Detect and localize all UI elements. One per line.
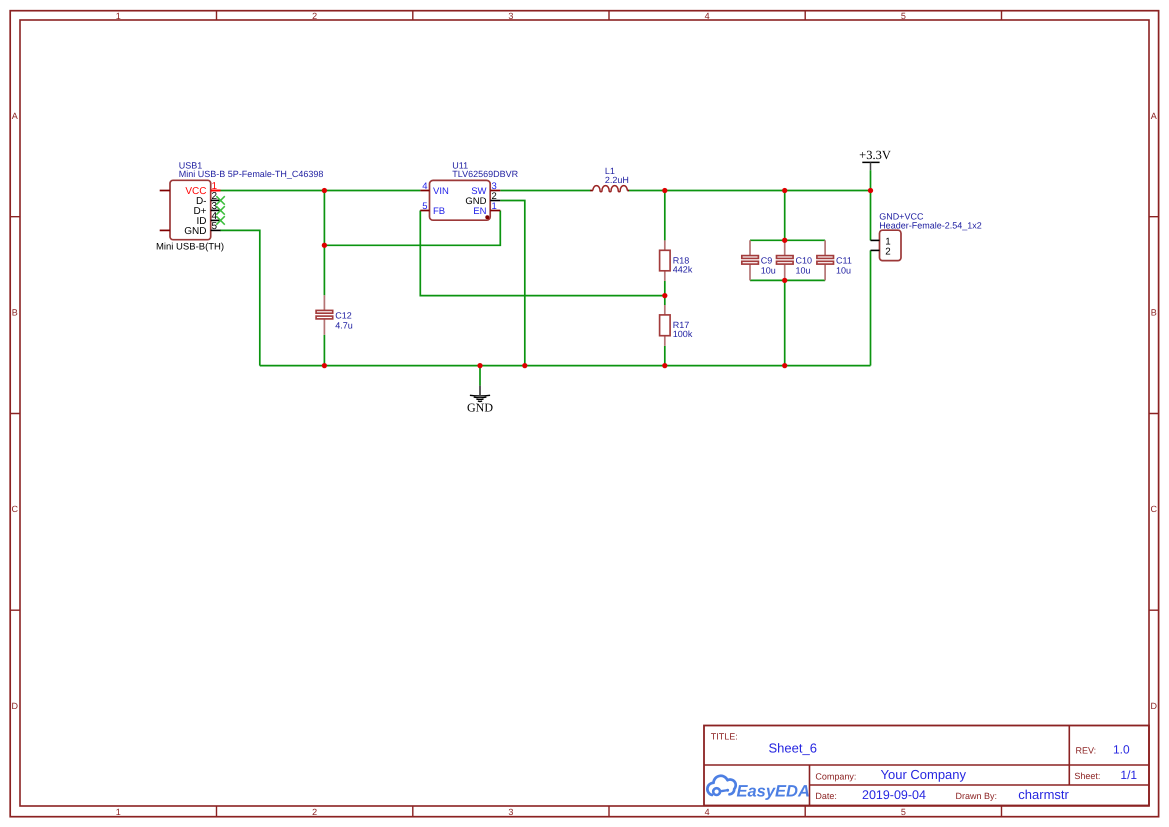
bottom column ticks: [217, 806, 1002, 817]
left row ticks: [10, 217, 21, 611]
svg-text:1.0: 1.0: [1113, 742, 1130, 756]
svg-text:3: 3: [508, 11, 513, 21]
svg-text:Sheet_6: Sheet_6: [769, 740, 817, 755]
R17 leads: [664, 305, 666, 315]
wire R18 to R17: [664, 281, 666, 305]
wire FB to divider tap: [420, 211, 665, 296]
header body: [880, 230, 902, 260]
wire rail to R18: [664, 191, 666, 241]
svg-text:EN: EN: [473, 206, 486, 217]
svg-text:C12: C12: [335, 311, 352, 321]
svg-text:5: 5: [901, 11, 906, 21]
svg-text:TITLE:: TITLE:: [711, 732, 738, 742]
svg-text:C11: C11: [836, 256, 852, 266]
L1 winding: [593, 186, 627, 192]
svg-text:EasyEDA: EasyEDA: [737, 782, 810, 800]
resistor R17: [660, 305, 693, 346]
wire U11 GND to ground rail: [500, 201, 525, 366]
resistor R18: [660, 240, 693, 281]
svg-text:2.2uH: 2.2uH: [605, 175, 629, 185]
svg-text:5: 5: [422, 201, 427, 212]
wire L1 to +3.3V rail: [629, 190, 871, 192]
junction GND flag: [477, 363, 482, 368]
junction C12/ground rail: [322, 363, 327, 368]
header pin 1: [871, 239, 880, 241]
left ruler letters: [11, 111, 18, 711]
svg-text:3: 3: [508, 807, 513, 817]
USB1 pin 1 VCC: [211, 190, 221, 192]
junction cap bank top: [782, 238, 787, 243]
svg-text:GND: GND: [467, 401, 493, 415]
svg-text:10u: 10u: [761, 266, 776, 276]
right row ticks: [1149, 217, 1159, 611]
inductor L1: [590, 166, 629, 192]
U11 pin 3 SW: [490, 190, 500, 192]
wire SW to L1: [500, 190, 590, 192]
capacitor C12: [316, 295, 353, 335]
svg-text:1: 1: [492, 201, 497, 212]
top column ticks: [217, 10, 1002, 20]
svg-text:1: 1: [116, 11, 121, 21]
wire EN to VIN net: [324, 211, 500, 246]
USB1 pin 3 D+: [211, 209, 221, 211]
wire VCC rail USB to VIN: [220, 190, 421, 192]
svg-text:5: 5: [901, 807, 906, 817]
ground GND flag: [467, 366, 493, 415]
wire cap bank top: [750, 239, 825, 241]
U11 body: [430, 180, 491, 220]
wire USB GND to ground rail: [220, 230, 260, 365]
right ruler letters: [1150, 111, 1157, 711]
USB1 pin 5 GND: [211, 229, 221, 231]
svg-text:TLV62569DBVR: TLV62569DBVR: [452, 169, 518, 179]
svg-text:2: 2: [312, 11, 317, 21]
junction cap bank bottom: [782, 278, 787, 283]
wire cap bank bottom: [750, 279, 825, 281]
wire ground rail: [260, 365, 871, 367]
U11 pin 4 VIN: [420, 190, 429, 192]
EasyEDA logo: [707, 776, 810, 801]
bottom ruler numbers: [116, 807, 906, 817]
U11 pin 2 GND: [490, 200, 500, 202]
L1 leads: [590, 190, 593, 192]
svg-text:Company:: Company:: [815, 771, 856, 781]
wire rail to header pin1: [870, 191, 872, 241]
svg-text:Header-Female-2.54_1x2: Header-Female-2.54_1x2: [879, 221, 982, 231]
svg-text:D: D: [1150, 701, 1157, 711]
R17 body: [660, 315, 671, 336]
no-connect X pin3: [216, 206, 225, 215]
junction U11 GND rail: [522, 363, 527, 368]
title block dividers: [704, 726, 1149, 806]
svg-text:B: B: [1151, 307, 1157, 317]
junction L1/R18: [662, 188, 667, 193]
svg-text:4: 4: [422, 181, 427, 192]
wire R17 to ground rail: [664, 346, 666, 366]
R18 body: [660, 250, 671, 270]
svg-text:A: A: [1151, 111, 1157, 121]
svg-text:C9: C9: [761, 256, 773, 266]
USB1 body: [170, 180, 211, 239]
svg-text:C: C: [1150, 504, 1157, 514]
C12 leads: [323, 295, 325, 311]
svg-text:VIN: VIN: [433, 186, 449, 197]
connector GND+VCC Header-Female-2.54_1x2: [871, 212, 982, 261]
svg-text:FB: FB: [433, 206, 445, 217]
USB1 pin 4 ID: [211, 219, 221, 221]
junction dots: [322, 188, 873, 368]
header pin 2: [871, 249, 880, 251]
TITLE BLOCK: [704, 726, 1149, 806]
junction R17/ground rail: [662, 363, 667, 368]
svg-text:1/1: 1/1: [1120, 768, 1137, 782]
capacitor C11: [817, 240, 852, 280]
wire VIN down to C12: [323, 191, 325, 296]
svg-text:442k: 442k: [673, 265, 693, 275]
U11 pin 5 FB: [420, 210, 429, 212]
junction FB tap: [662, 293, 667, 298]
connector USB1: [156, 160, 323, 252]
SCHEMATIC: [156, 148, 982, 415]
R18 leads: [664, 240, 666, 250]
junction VIN/C12: [322, 188, 327, 193]
svg-text:C: C: [11, 504, 18, 514]
svg-text:5: 5: [212, 221, 218, 232]
junction EN net: [322, 243, 327, 248]
capacitor C9: [742, 240, 776, 280]
svg-text:4: 4: [705, 11, 710, 21]
svg-text:2: 2: [312, 807, 317, 817]
junction rail/caps: [782, 188, 787, 193]
svg-text:4: 4: [705, 807, 710, 817]
no-connect X pin4: [216, 216, 225, 225]
svg-text:2019-09-04: 2019-09-04: [862, 788, 926, 802]
USB1 pin 2 D-: [211, 199, 221, 201]
title block outline: [704, 726, 1149, 806]
USB1 shield pin left bottom: [160, 229, 170, 231]
svg-text:Date:: Date:: [815, 791, 837, 801]
svg-text:100k: 100k: [673, 329, 693, 339]
svg-text:1: 1: [116, 807, 121, 817]
U11 corner dot: [485, 215, 489, 219]
USB1 shield pin left top: [160, 190, 170, 192]
wire header pin2 to ground rail: [870, 250, 872, 365]
svg-text:+3.3V: +3.3V: [859, 148, 891, 162]
svg-text:Drawn By:: Drawn By:: [956, 791, 998, 801]
C12 plates: [316, 310, 333, 313]
svg-text:REV:: REV:: [1076, 745, 1097, 755]
svg-text:10u: 10u: [836, 266, 851, 276]
power flag +3.3V: [859, 148, 891, 191]
top ruler numbers: [116, 11, 906, 21]
junction caps/ground rail: [782, 363, 787, 368]
wire rail down to cap bank: [784, 191, 786, 241]
svg-text:D: D: [11, 701, 18, 711]
svg-text:B: B: [12, 307, 18, 317]
svg-text:charmstr: charmstr: [1018, 787, 1069, 802]
svg-text:10u: 10u: [796, 266, 811, 276]
wire cap bank to ground rail: [784, 280, 786, 365]
svg-text:2: 2: [885, 246, 890, 257]
junction rail/+3.3V: [868, 188, 873, 193]
svg-text:GND: GND: [184, 226, 206, 237]
svg-text:Sheet:: Sheet:: [1074, 771, 1100, 781]
svg-text:4.7u: 4.7u: [335, 321, 353, 331]
IC U11 TLV62569DBVR: [420, 160, 518, 220]
wire C12 to ground rail: [323, 335, 325, 366]
U11 pin 1 EN: [490, 210, 500, 212]
svg-text:Your Company: Your Company: [881, 767, 967, 782]
capacitor C10: [777, 240, 813, 280]
svg-text:A: A: [12, 111, 18, 121]
svg-text:C10: C10: [796, 256, 813, 266]
svg-text:Mini USB-B(TH): Mini USB-B(TH): [156, 241, 224, 252]
no-connect X pin2: [216, 196, 225, 205]
svg-text:Mini USB-B 5P-Female-TH_C46398: Mini USB-B 5P-Female-TH_C46398: [179, 169, 324, 179]
